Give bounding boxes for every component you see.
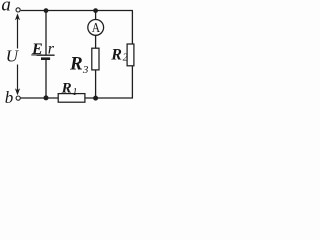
- voltage arrow head up: [15, 13, 20, 20]
- svg-text:2: 2: [123, 53, 128, 64]
- svg-text:U: U: [6, 47, 20, 66]
- svg-text:1: 1: [72, 87, 77, 98]
- wire battery branch lower: [45, 60, 47, 98]
- svg-text:R: R: [110, 47, 122, 64]
- svg-text:r: r: [48, 41, 55, 58]
- wire R3 to bottom: [95, 70, 97, 98]
- svg-text:R: R: [61, 80, 72, 96]
- resistor R2 box: [127, 44, 134, 66]
- wire right side upper: [131, 11, 133, 45]
- svg-text:A: A: [92, 21, 101, 36]
- svg-text:b: b: [5, 88, 14, 106]
- wire ammeter branch upper: [95, 11, 97, 20]
- svg-text:R: R: [69, 54, 83, 75]
- voltage arrow head down: [15, 88, 20, 95]
- ammeter A circle: [88, 20, 104, 36]
- svg-text:a: a: [1, 0, 11, 15]
- resistor R3 box: [92, 48, 99, 70]
- terminal a circle: [16, 8, 20, 12]
- wire bottom (R1 to bottom-right corner): [85, 97, 133, 99]
- wire bottom (b to R1): [21, 97, 59, 99]
- wire right side lower: [131, 66, 133, 98]
- wire ammeter to R3: [95, 35, 97, 48]
- voltage arrow U shaft lower: [17, 65, 19, 92]
- svg-text:3: 3: [82, 64, 89, 76]
- node junction dot bottom R3: [93, 96, 98, 101]
- resistor R1 box: [58, 94, 85, 103]
- node junction dot top battery: [44, 8, 49, 13]
- wire battery branch upper: [45, 11, 47, 55]
- battery long plate: [37, 54, 55, 56]
- node junction dot top ammeter: [93, 8, 98, 13]
- voltage arrow U shaft upper: [17, 18, 19, 49]
- node junction dot bottom battery: [44, 95, 49, 100]
- terminal b circle: [16, 96, 20, 100]
- label E underline: [31, 54, 42, 56]
- battery short thick plate: [41, 57, 50, 60]
- wire top (a to top-right corner): [21, 10, 133, 12]
